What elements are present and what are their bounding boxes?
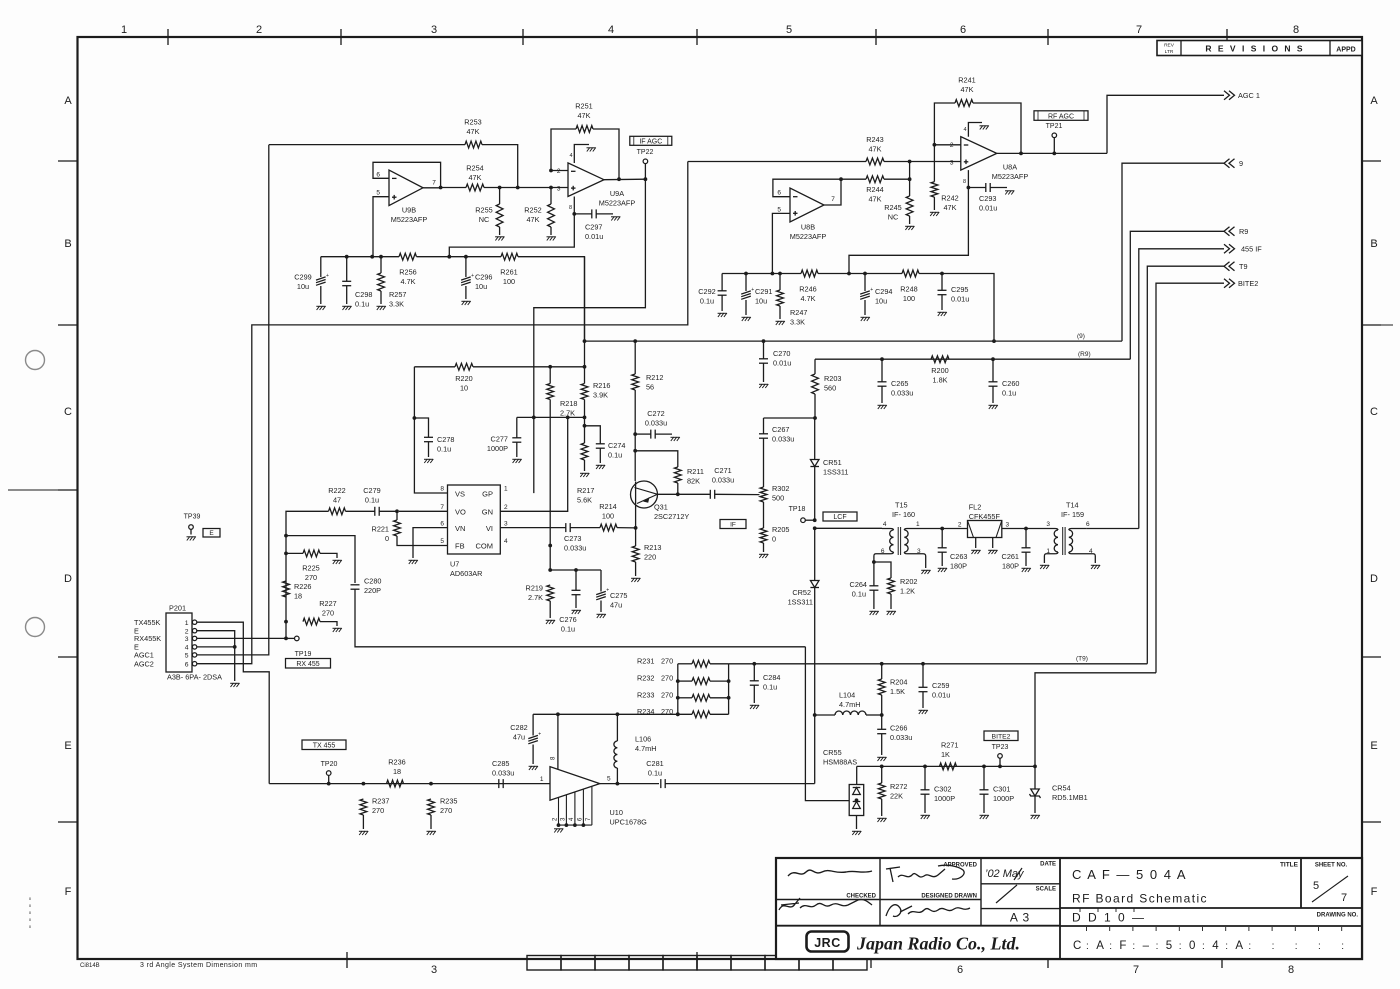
wire CR54 bottom bbox=[1034, 796, 1036, 813]
svg-text:R217: R217 bbox=[577, 486, 594, 495]
svg-text:C302: C302 bbox=[934, 785, 951, 794]
ground bbox=[776, 321, 785, 325]
junction bbox=[676, 712, 680, 716]
wire R203 bbox=[814, 359, 816, 374]
ground bbox=[529, 766, 538, 770]
junction bbox=[1019, 152, 1023, 156]
svg-text::: : bbox=[1202, 941, 1205, 952]
diode network CR55 bbox=[849, 785, 864, 816]
svg-text:270: 270 bbox=[372, 806, 384, 815]
svg-text:FB: FB bbox=[455, 542, 465, 551]
svg-text:9: 9 bbox=[1239, 159, 1243, 168]
wire R231 left bbox=[678, 663, 692, 665]
capacitor C296 bbox=[461, 277, 471, 285]
wire C291 top bbox=[745, 274, 747, 292]
svg-text:M5223AFP: M5223AFP bbox=[992, 172, 1029, 181]
svg-text:6: 6 bbox=[960, 24, 966, 36]
svg-text:R241: R241 bbox=[958, 76, 975, 85]
wire C282 top bbox=[532, 714, 534, 735]
svg-text:0.033u: 0.033u bbox=[645, 419, 667, 428]
capacitor C284 bbox=[750, 681, 759, 685]
svg-text:6: 6 bbox=[577, 817, 583, 821]
ground bbox=[887, 611, 896, 615]
wire CR55 line bbox=[857, 765, 1035, 767]
svg-text:T15: T15 bbox=[895, 501, 908, 510]
svg-text:R213: R213 bbox=[644, 543, 661, 552]
svg-text:F: F bbox=[1119, 940, 1126, 952]
wire R232 left bbox=[678, 680, 692, 682]
wire 9 bus bbox=[585, 340, 1123, 342]
wire R241 right bbox=[973, 103, 1021, 153]
svg-text:R9: R9 bbox=[1239, 227, 1248, 236]
ground bbox=[461, 301, 470, 305]
svg-text:4.7K: 4.7K bbox=[800, 294, 815, 303]
wire R221 bottom bbox=[397, 536, 448, 546]
junction bbox=[880, 765, 884, 769]
wire C261 bottom bbox=[1025, 553, 1027, 567]
wire R219 bottom bbox=[549, 601, 551, 618]
wire TP39 stub bbox=[190, 529, 192, 534]
capacitor C279 bbox=[375, 507, 379, 516]
signature H.Shinoki bbox=[886, 905, 970, 917]
svg-text:0.1u: 0.1u bbox=[700, 297, 714, 306]
svg-text:IF- 159: IF- 159 bbox=[1061, 510, 1084, 519]
junction bbox=[413, 416, 417, 420]
svg-text:R227: R227 bbox=[319, 599, 336, 608]
ground bbox=[427, 831, 436, 835]
svg-text:10u: 10u bbox=[875, 297, 887, 306]
wire C277 bottom bbox=[516, 443, 518, 458]
wire U8 bus right bbox=[919, 274, 994, 342]
resistor R246 bbox=[801, 270, 818, 277]
wire C272 left bbox=[635, 433, 651, 435]
svg-text:(R9): (R9) bbox=[1078, 351, 1091, 358]
capacitor C263 bbox=[938, 548, 947, 552]
svg-text:CR52: CR52 bbox=[792, 588, 811, 597]
capacitor C280 bbox=[351, 585, 360, 589]
test point TP22 bbox=[643, 159, 648, 164]
svg-text:C274: C274 bbox=[608, 441, 625, 450]
drawing code CAF-504A bbox=[1073, 927, 1344, 952]
wire C280 bottom bbox=[355, 590, 805, 647]
svg-text:R252: R252 bbox=[524, 206, 541, 215]
resistor R203 bbox=[812, 374, 819, 394]
wire C263 bottom bbox=[941, 553, 943, 567]
wire C294 top bbox=[864, 274, 866, 292]
svg-text:8: 8 bbox=[551, 756, 557, 760]
svg-text::: : bbox=[1132, 941, 1135, 952]
svg-text:1.8K: 1.8K bbox=[932, 376, 947, 385]
svg-text:APPD: APPD bbox=[1336, 47, 1355, 54]
wire R array right bus bbox=[728, 664, 730, 715]
svg-text:7: 7 bbox=[586, 817, 592, 821]
svg-text:NC: NC bbox=[479, 215, 490, 224]
capacitor C273 bbox=[566, 523, 570, 532]
wire R204 bottom bbox=[881, 695, 883, 715]
wire CR52 to L104 node bbox=[814, 588, 816, 784]
svg-text:C299: C299 bbox=[294, 273, 311, 282]
ground bbox=[572, 610, 581, 614]
svg-text:T14: T14 bbox=[1066, 501, 1079, 510]
resistor R200 bbox=[931, 356, 949, 363]
resistor R234 bbox=[692, 711, 710, 718]
svg-text:RF Board Schematic: RF Board Schematic bbox=[1072, 892, 1208, 906]
ground bbox=[359, 831, 368, 835]
wire CR51 bottom bbox=[814, 467, 816, 521]
capacitor C299 bbox=[316, 277, 326, 285]
net label LCF bbox=[823, 512, 857, 521]
svg-text:M5223AFP: M5223AFP bbox=[790, 232, 827, 241]
ground bbox=[495, 237, 504, 241]
wire C264 bottom bbox=[873, 591, 875, 610]
resistor R241 bbox=[955, 100, 973, 107]
junction bbox=[813, 526, 817, 530]
svg-text:270: 270 bbox=[661, 690, 673, 699]
svg-text:R246: R246 bbox=[799, 285, 816, 294]
resistor R218 bbox=[547, 384, 554, 400]
svg-text:8: 8 bbox=[1293, 24, 1299, 36]
wire R232 right bbox=[710, 680, 729, 682]
svg-text:0.01u: 0.01u bbox=[979, 204, 997, 213]
svg-text:5: 5 bbox=[376, 190, 380, 197]
svg-text:0: 0 bbox=[29, 924, 32, 929]
svg-text:R271: R271 bbox=[941, 741, 958, 750]
svg-text:+: + bbox=[751, 287, 754, 293]
wire C276 top bbox=[575, 570, 577, 590]
junction bbox=[967, 186, 971, 190]
svg-text:IF AGC: IF AGC bbox=[639, 138, 662, 145]
svg-text:C266: C266 bbox=[890, 724, 907, 733]
transistor Q31 bbox=[631, 481, 658, 508]
junction bbox=[327, 782, 331, 786]
svg-text:270: 270 bbox=[661, 674, 673, 683]
wire R214 to Q31 bbox=[617, 527, 636, 529]
svg-text:6: 6 bbox=[957, 964, 963, 976]
svg-text:7: 7 bbox=[1133, 964, 1139, 976]
svg-text:2: 2 bbox=[958, 522, 962, 529]
svg-text:0.1u: 0.1u bbox=[648, 769, 662, 778]
svg-text:R237: R237 bbox=[372, 797, 389, 806]
junction bbox=[634, 526, 638, 530]
svg-text:0.1u: 0.1u bbox=[763, 683, 777, 692]
wire TP22 stub bbox=[644, 164, 646, 180]
resistor R214 bbox=[600, 524, 617, 531]
svg-text:R256: R256 bbox=[399, 268, 416, 277]
svg-text:R225: R225 bbox=[302, 564, 319, 573]
svg-text:47u: 47u bbox=[610, 601, 622, 610]
capacitor C260 bbox=[989, 382, 998, 386]
svg-text:VI: VI bbox=[486, 524, 493, 533]
svg-text:UPC1678G: UPC1678G bbox=[610, 818, 648, 827]
svg-text:C291: C291 bbox=[755, 287, 772, 296]
capacitor C264 bbox=[869, 586, 878, 590]
svg-text:M5223AFP: M5223AFP bbox=[599, 199, 636, 208]
wire C297 node to U9 bus bbox=[449, 214, 574, 257]
resistor R242 bbox=[931, 182, 938, 197]
wire C284 top bbox=[753, 664, 755, 681]
wire C295 bottom bbox=[941, 295, 943, 310]
junction bbox=[923, 765, 927, 769]
svg-text:LCF: LCF bbox=[833, 514, 846, 521]
wire net 455IF riser bbox=[1139, 249, 1224, 529]
svg-text:7: 7 bbox=[440, 504, 444, 511]
wire C293 right bbox=[990, 187, 1007, 189]
capacitor C261 bbox=[1022, 548, 1031, 552]
wire C291 bottom bbox=[745, 300, 747, 315]
ground bbox=[316, 306, 325, 310]
wire R225 right bbox=[320, 553, 337, 558]
wire U10 output bbox=[600, 783, 659, 785]
resistor R302 bbox=[760, 487, 767, 502]
capacitor C281 bbox=[661, 779, 665, 788]
wire R235 bottom bbox=[430, 815, 432, 829]
svg-text:D: D bbox=[64, 573, 72, 585]
test point TP19 bbox=[295, 636, 300, 641]
svg-text:6: 6 bbox=[440, 521, 444, 528]
capacitor C292 bbox=[718, 291, 727, 295]
svg-text:5: 5 bbox=[1166, 940, 1172, 952]
wire R222 left bbox=[286, 511, 329, 638]
svg-text:0.033u: 0.033u bbox=[492, 769, 514, 778]
svg-text:A: A bbox=[1096, 940, 1104, 952]
resistor R219 bbox=[547, 585, 554, 601]
junction bbox=[548, 568, 552, 572]
drawing number DD10- bbox=[1072, 908, 1146, 925]
capacitor C265 bbox=[878, 382, 887, 386]
svg-text:R220: R220 bbox=[455, 374, 472, 383]
wire CR55 top bbox=[856, 766, 858, 784]
svg-text:F: F bbox=[65, 886, 72, 898]
svg-text:500: 500 bbox=[772, 494, 784, 503]
ground bbox=[742, 317, 751, 321]
svg-text:6: 6 bbox=[185, 662, 189, 669]
resistor R253 bbox=[465, 141, 482, 148]
signature Ikuhito bbox=[886, 865, 964, 882]
svg-text:AGC1: AGC1 bbox=[134, 651, 154, 660]
svg-text:+: + bbox=[326, 273, 329, 279]
wire U8A pin4 bbox=[968, 123, 982, 137]
net label BITE2 bbox=[984, 731, 1018, 741]
svg-text:100: 100 bbox=[503, 277, 515, 286]
wire U8B pin5 to bus bbox=[772, 213, 790, 273]
svg-text::: : bbox=[1272, 941, 1275, 952]
ground bbox=[988, 550, 997, 554]
wire R array left bus bbox=[677, 664, 679, 715]
wire R218 top bbox=[549, 367, 551, 384]
wire R257 top bbox=[380, 257, 382, 273]
svg-text:C294: C294 bbox=[875, 287, 892, 296]
junction bbox=[548, 365, 552, 369]
svg-text:BITE2: BITE2 bbox=[1238, 279, 1258, 288]
svg-text:C264: C264 bbox=[850, 580, 867, 589]
wire AGC1 out bbox=[1107, 95, 1224, 153]
svg-text:6: 6 bbox=[1086, 521, 1090, 528]
junction bbox=[633, 449, 637, 453]
svg-text:560: 560 bbox=[824, 384, 836, 393]
svg-text:4: 4 bbox=[1212, 940, 1219, 952]
wire C284 bottom bbox=[753, 686, 755, 704]
wire R254 to U9A bbox=[441, 187, 466, 189]
svg-text:R219: R219 bbox=[526, 584, 543, 593]
capacitor C302 bbox=[921, 790, 930, 794]
capacitor C301 bbox=[980, 790, 989, 794]
svg-text:R235: R235 bbox=[440, 797, 457, 806]
junction bbox=[345, 255, 349, 259]
resistor R255 bbox=[496, 204, 503, 227]
wire R202 top bbox=[874, 562, 891, 578]
svg-text:’02 May: ’02 May bbox=[985, 868, 1025, 880]
wire R244 right bbox=[884, 178, 910, 180]
junction bbox=[771, 272, 775, 276]
wire L106 bottom bbox=[616, 768, 618, 784]
svg-text:3: 3 bbox=[504, 521, 508, 528]
svg-text:0.01u: 0.01u bbox=[773, 359, 791, 368]
svg-text:HSM88AS: HSM88AS bbox=[823, 758, 857, 767]
svg-text:D: D bbox=[1370, 573, 1378, 585]
svg-text:+: + bbox=[471, 273, 474, 279]
resistor R205 bbox=[760, 528, 767, 543]
wire TP21 stub bbox=[1053, 138, 1055, 154]
junction bbox=[847, 272, 851, 276]
capacitor C285 bbox=[499, 779, 503, 788]
wire IF AGC to U7 GP bbox=[534, 179, 646, 493]
IC U7 AD603AR bbox=[448, 485, 501, 554]
ground bbox=[877, 818, 886, 822]
filter FL2 bbox=[968, 521, 1002, 538]
connector P201 bbox=[166, 613, 192, 672]
ground bbox=[424, 459, 433, 463]
wire VS line left bbox=[414, 366, 455, 368]
grid row letters left bbox=[64, 95, 72, 898]
wire P201 pin3 RX455K bbox=[197, 637, 286, 639]
svg-text:LTR: LTR bbox=[1165, 49, 1174, 55]
wire CR52 top bbox=[814, 528, 816, 580]
svg-text:2: 2 bbox=[504, 504, 508, 511]
ground bbox=[342, 306, 351, 310]
junction bbox=[1052, 152, 1056, 156]
test point TP39 bbox=[189, 525, 194, 530]
ground bbox=[921, 570, 930, 574]
svg-text:0.01u: 0.01u bbox=[932, 691, 950, 700]
svg-text:E: E bbox=[209, 530, 214, 537]
svg-text:U8A: U8A bbox=[1003, 163, 1017, 172]
wire C271 right bbox=[715, 493, 760, 495]
svg-text:SHEET NO.: SHEET NO. bbox=[1315, 863, 1348, 869]
wire R221 top bbox=[396, 511, 398, 520]
svg-text:C277: C277 bbox=[491, 435, 508, 444]
resistor R225 bbox=[303, 550, 320, 557]
junction bbox=[921, 662, 925, 666]
svg-text:R204: R204 bbox=[890, 678, 907, 687]
svg-text:100: 100 bbox=[602, 512, 614, 521]
capacitor C278 bbox=[424, 437, 433, 441]
svg-text:IF- 160: IF- 160 bbox=[892, 510, 915, 519]
svg-text:R261: R261 bbox=[500, 268, 517, 277]
svg-text:+: + bbox=[538, 732, 541, 738]
wire R243 right bbox=[884, 161, 961, 163]
resistor R226 bbox=[283, 581, 290, 597]
junction CR55 center bbox=[855, 798, 859, 802]
wire C276 bottom bbox=[575, 595, 577, 608]
svg-text:R202: R202 bbox=[900, 577, 917, 586]
junction bbox=[616, 712, 620, 716]
svg-text:R236: R236 bbox=[388, 758, 405, 767]
svg-text:P201: P201 bbox=[169, 604, 186, 613]
wire RX to CR55 bbox=[805, 647, 849, 801]
wire T15 pin6 down bbox=[873, 556, 875, 562]
junction bbox=[633, 339, 637, 343]
resistor R222 bbox=[329, 508, 346, 515]
svg-text:270: 270 bbox=[322, 609, 334, 618]
grid ticks bottom bbox=[347, 952, 1222, 968]
capacitor C294 bbox=[860, 291, 870, 299]
svg-text:220: 220 bbox=[644, 553, 656, 562]
svg-text:10u: 10u bbox=[297, 282, 309, 291]
wire R242 bottom bbox=[933, 197, 935, 210]
svg-text:C295: C295 bbox=[951, 285, 968, 294]
wire U8A pin2 bbox=[934, 144, 960, 146]
wire R254 out bbox=[484, 187, 568, 189]
svg-text:GN: GN bbox=[482, 508, 493, 517]
wire R272 bottom bbox=[881, 799, 883, 816]
svg-text:Ci814B: Ci814B bbox=[80, 963, 100, 969]
svg-text:C298: C298 bbox=[355, 290, 372, 299]
wire R244 left bbox=[841, 178, 866, 180]
net label RX 455 bbox=[286, 659, 331, 669]
wire U9B pin6 bbox=[373, 162, 441, 187]
svg-text:Q31: Q31 bbox=[654, 503, 668, 512]
test point TP21 bbox=[1052, 133, 1057, 138]
wire C275 top bbox=[600, 570, 602, 592]
capacitor C293 bbox=[986, 183, 990, 192]
svg-text:1: 1 bbox=[504, 486, 508, 493]
svg-text:270: 270 bbox=[661, 656, 673, 665]
wire C261 top bbox=[1025, 529, 1027, 548]
connector 455 IF bbox=[1224, 244, 1235, 253]
connector AGC 1 bbox=[1224, 91, 1235, 100]
wire P201 pin2 E bbox=[197, 631, 235, 681]
svg-text:47K: 47K bbox=[961, 85, 974, 94]
svg-text:GP: GP bbox=[482, 490, 493, 499]
wire R218 bottom bbox=[549, 400, 551, 546]
junction bbox=[395, 509, 399, 513]
resistor R257 bbox=[378, 273, 385, 291]
revisions header bbox=[1157, 41, 1362, 56]
svg-text:C293: C293 bbox=[979, 194, 996, 203]
resistor R243 bbox=[866, 158, 884, 165]
wire FL2 out bbox=[1002, 528, 1054, 530]
capacitor C259 bbox=[919, 687, 928, 691]
svg-text:DATE: DATE bbox=[1040, 862, 1056, 868]
connector BITE2 bbox=[1224, 279, 1235, 288]
svg-text:10u: 10u bbox=[475, 282, 487, 291]
wire U9A output bbox=[604, 178, 645, 181]
wire R247 bottom bbox=[779, 306, 781, 319]
wire R257 bottom bbox=[380, 291, 382, 304]
resistor R212 bbox=[632, 374, 639, 390]
ground bbox=[631, 578, 640, 582]
resistor R232 bbox=[692, 678, 710, 685]
svg-text:RF AGC: RF AGC bbox=[1048, 113, 1074, 120]
wire R252 bottom bbox=[550, 227, 552, 235]
svg-text:0.1u: 0.1u bbox=[355, 300, 369, 309]
junction bbox=[727, 696, 731, 700]
junction bbox=[362, 782, 366, 786]
wire C297 left bbox=[574, 213, 592, 215]
ground bbox=[377, 306, 386, 310]
svg-text:R243: R243 bbox=[866, 135, 883, 144]
grid ticks top bbox=[168, 29, 1227, 45]
